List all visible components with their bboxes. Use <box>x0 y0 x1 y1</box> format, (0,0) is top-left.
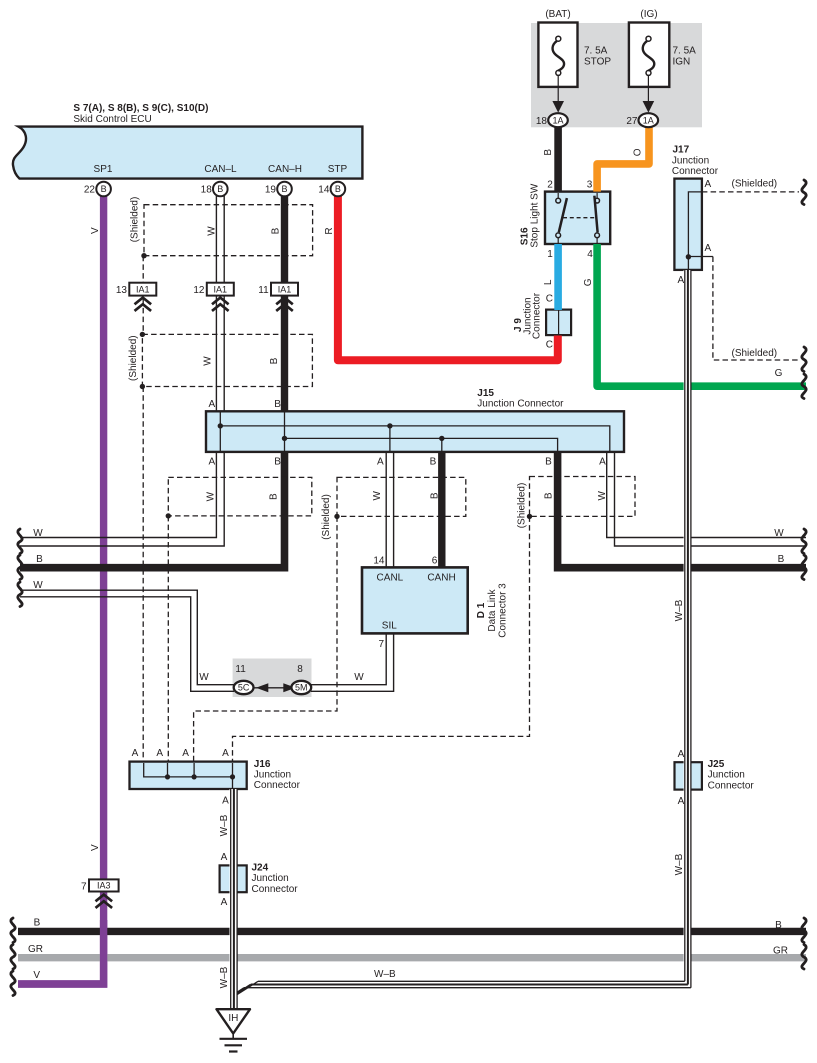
svg-text:GR: GR <box>773 946 788 957</box>
svg-text:A: A <box>221 897 228 908</box>
ECU pin circle 18 (B) <box>213 182 228 197</box>
node: shield dot box2 top-left <box>140 332 145 337</box>
svg-text:B: B <box>34 918 41 929</box>
svg-text:V: V <box>33 970 40 981</box>
svg-text:A: A <box>208 399 215 410</box>
node: shield dot box M <box>334 514 339 519</box>
svg-text:W: W <box>202 356 213 366</box>
shield drain wire (dashed) box1 to box2 through IA1 13 <box>142 256 144 335</box>
svg-text:Connector: Connector <box>672 166 719 177</box>
svg-text:W: W <box>33 528 43 539</box>
shielded dashed box M (around D1 CANL/CANH) <box>337 477 466 516</box>
svg-text:B: B <box>335 184 341 194</box>
svg-text:C: C <box>546 339 553 350</box>
connector IA3 (7) <box>89 879 119 908</box>
svg-text:3: 3 <box>587 180 593 191</box>
svg-text:B: B <box>545 457 552 468</box>
shielded dashed box R (below J15 right) <box>530 477 636 517</box>
wire O (orange) fuse IGN to S16 pin 3 <box>597 127 649 192</box>
svg-text:A: A <box>705 179 712 190</box>
svg-text:B: B <box>775 920 782 931</box>
wire W-B (white/black stripe) bottom horizontal bus <box>231 981 691 996</box>
svg-text:W: W <box>354 672 364 683</box>
svg-text:22: 22 <box>84 185 96 196</box>
wire W-B (white/black stripe) J17 through J25 to bottom bus <box>684 270 692 988</box>
ground IH (triangle and earth) <box>217 1009 251 1051</box>
svg-text:W–B: W–B <box>219 966 230 988</box>
svg-text:J15: J15 <box>477 388 494 399</box>
svg-text:27: 27 <box>626 116 638 127</box>
svg-text:D 1: D 1 <box>476 602 487 618</box>
svg-text:(IG): (IG) <box>640 9 657 20</box>
svg-text:G: G <box>583 278 594 286</box>
svg-text:B: B <box>274 457 281 468</box>
svg-text:B: B <box>429 492 440 499</box>
svg-text:5M: 5M <box>295 683 308 693</box>
wire W (double line) CAN-L pin 18 to J15 <box>215 196 217 411</box>
wire W-B (white/black stripe) J16 to J24 to ground IH <box>230 789 238 1009</box>
junction connector J15 (box) <box>206 411 624 452</box>
junction connector J16 (box) <box>130 762 247 789</box>
svg-text:A: A <box>377 457 384 468</box>
svg-text:CAN–L: CAN–L <box>204 164 237 175</box>
svg-text:1A: 1A <box>552 116 563 126</box>
svg-text:W: W <box>205 491 216 501</box>
svg-text:W: W <box>774 528 784 539</box>
svg-text:A: A <box>678 796 685 807</box>
svg-text:19: 19 <box>265 185 277 196</box>
Skid Control ECU (box with torn left edge) <box>13 127 362 179</box>
svg-text:S 7(A), S 8(B), S 9(C), S10(D): S 7(A), S 8(B), S 9(C), S10(D) <box>73 103 208 114</box>
svg-text:CAN–H: CAN–H <box>268 164 302 175</box>
svg-text:A: A <box>156 748 163 759</box>
svg-text:18: 18 <box>536 116 548 127</box>
svg-text:O: O <box>633 148 644 156</box>
svg-text:A: A <box>222 748 229 759</box>
stop light switch S16 (box) <box>545 192 610 244</box>
svg-text:14: 14 <box>318 185 330 196</box>
svg-text:1: 1 <box>547 249 553 260</box>
svg-text:7. 5A: 7. 5A <box>673 46 697 57</box>
svg-text:L: L <box>543 279 554 285</box>
svg-text:B: B <box>543 149 554 156</box>
svg-text:(Shielded): (Shielded) <box>130 197 141 243</box>
svg-text:A: A <box>678 749 685 760</box>
svg-text:11: 11 <box>258 285 269 296</box>
svg-text:SIL: SIL <box>382 620 397 631</box>
node: shield dot box R <box>527 514 532 519</box>
svg-text:B: B <box>270 227 281 234</box>
svg-text:12: 12 <box>193 285 205 296</box>
svg-text:V: V <box>90 844 101 851</box>
node: shield dot box1 bottom-left <box>141 253 146 258</box>
svg-text:R: R <box>324 227 335 234</box>
wire W (double line) right bus from J15 <box>607 452 806 538</box>
junction connector J25 (box) <box>675 762 702 789</box>
svg-text:Connector: Connector <box>254 780 301 791</box>
fuse block gray background <box>531 23 702 127</box>
svg-text:7. 5A: 7. 5A <box>584 46 608 57</box>
node: shield dot box L <box>166 513 171 518</box>
svg-text:A: A <box>221 852 228 863</box>
ECU pin circle 19 (B) <box>277 182 292 197</box>
wire W (double line) below J15 to left bus <box>20 452 216 538</box>
torn edge squiggles left buses <box>18 529 22 554</box>
junction connector J24 (box) <box>220 865 247 892</box>
svg-text:Junction: Junction <box>672 156 709 167</box>
svg-text:J16: J16 <box>254 759 271 770</box>
shield drain wire (dashed) box R to J16 pin 4 <box>233 516 530 761</box>
connector IA1 (13) <box>129 283 156 311</box>
connector IA1 (12) <box>207 283 234 311</box>
wire B (black) CAN-H below J15 to left bus <box>20 452 285 568</box>
svg-text:18: 18 <box>201 185 213 196</box>
fuse STOP element (curve and contacts) <box>553 36 565 75</box>
svg-text:B: B <box>543 492 554 499</box>
svg-text:B: B <box>269 493 280 500</box>
svg-text:B: B <box>217 184 223 194</box>
svg-text:7: 7 <box>81 882 87 893</box>
svg-text:B: B <box>101 184 107 194</box>
svg-text:B: B <box>281 184 287 194</box>
svg-text:13: 13 <box>116 285 128 296</box>
svg-text:1A: 1A <box>643 116 654 126</box>
shield dashed from J17 second pin A down and right <box>713 257 799 361</box>
svg-text:(Shielded): (Shielded) <box>128 335 139 381</box>
svg-text:Connector 3: Connector 3 <box>497 583 508 638</box>
svg-text:IH: IH <box>228 1013 238 1024</box>
J16 internal rail <box>144 763 233 777</box>
svg-text:A: A <box>599 457 606 468</box>
J15 internal rail 2 <box>285 438 558 451</box>
svg-text:C: C <box>546 294 553 305</box>
svg-text:B: B <box>430 457 437 468</box>
ECU pin circle 14 (B) <box>331 182 346 197</box>
svg-text:A: A <box>677 275 684 286</box>
inline connector ovals 5C / 5M with arrows <box>234 681 311 694</box>
shield dashed from J17 pin A to right edge <box>702 191 799 193</box>
fuse IGN element (curve and contacts) <box>643 36 655 75</box>
svg-text:B: B <box>274 399 281 410</box>
svg-text:2: 2 <box>547 180 553 191</box>
svg-text:IGN: IGN <box>673 57 691 68</box>
svg-text:W: W <box>206 226 217 236</box>
J15 internal pass-through lines <box>219 412 221 451</box>
svg-text:IA3: IA3 <box>97 881 111 891</box>
J17 internal shield wire and pins <box>688 192 713 257</box>
svg-text:6: 6 <box>432 555 438 566</box>
wire V (violet) crossing over buses, bottom left <box>18 920 104 984</box>
svg-text:IA1: IA1 <box>136 284 150 294</box>
svg-text:A: A <box>705 243 712 254</box>
wire W (double line) 5M to D1 SIL pin 7 <box>311 634 386 685</box>
svg-text:GR: GR <box>28 944 43 955</box>
svg-text:B: B <box>269 357 280 364</box>
fuse STOP output arrow into 1A <box>548 75 568 127</box>
shielded dashed box L (below J15 left) <box>168 477 311 516</box>
svg-text:A: A <box>132 748 139 759</box>
fuse 7.5A IGN (box) <box>629 23 669 87</box>
wire B (black) J15 down to D1 CANH pin 6 <box>438 452 445 567</box>
fuse 7.5A STOP (box) <box>538 23 577 87</box>
svg-text:8: 8 <box>297 664 303 675</box>
svg-text:B: B <box>36 554 43 565</box>
node: J17 junction dot <box>686 254 691 259</box>
shield drain wire (dashed) box M to J16 pin 3 <box>194 516 337 761</box>
svg-text:CANH: CANH <box>427 572 455 583</box>
svg-text:SP1: SP1 <box>94 164 113 175</box>
data link connector D1 (box) <box>362 567 468 633</box>
ECU pin circle 22 (B) <box>96 182 111 197</box>
svg-text:W: W <box>33 580 43 591</box>
svg-text:Junction: Junction <box>254 769 291 780</box>
svg-text:CANL: CANL <box>377 572 404 583</box>
S16 switch contacts and blades <box>556 193 600 243</box>
svg-text:W–B: W–B <box>374 969 396 980</box>
svg-text:Junction: Junction <box>708 770 745 781</box>
bus GR (gray) bottom <box>18 954 806 961</box>
svg-text:W: W <box>372 491 383 501</box>
torn edge squiggles right side <box>802 180 806 205</box>
svg-text:Stop Light SW: Stop Light SW <box>530 183 541 247</box>
svg-text:W–B: W–B <box>674 599 685 621</box>
svg-text:Connector: Connector <box>531 292 542 339</box>
wire V (violet) SP1 to IA3 to bottom-left <box>18 196 104 984</box>
wire G (green) S16 pin 4 to right edge <box>597 244 806 386</box>
svg-text:7: 7 <box>378 639 384 650</box>
node: shield dot box2 bottom-left <box>140 384 145 389</box>
svg-text:G: G <box>775 368 783 379</box>
wire W (double line) J15 to D1 CANL pin 14 <box>385 452 387 567</box>
connector IA1 (11) <box>271 283 298 311</box>
svg-text:5C: 5C <box>238 683 250 693</box>
svg-text:(Shielded): (Shielded) <box>321 494 332 540</box>
wire B (black) right bus from J15 <box>558 452 806 568</box>
svg-text:W–B: W–B <box>219 814 230 836</box>
svg-text:(Shielded): (Shielded) <box>517 483 528 529</box>
wire R (red) STP pin 14 to J9 <box>338 196 558 360</box>
inline connector 5C/5M gray background <box>233 659 312 698</box>
svg-text:STOP: STOP <box>584 57 611 68</box>
svg-text:A: A <box>222 796 229 807</box>
bus B (black) bottom <box>18 928 806 935</box>
svg-text:W: W <box>199 672 209 683</box>
svg-text:IA1: IA1 <box>278 284 292 294</box>
svg-text:Connector: Connector <box>252 884 299 895</box>
svg-text:Connector: Connector <box>708 780 755 791</box>
svg-text:A: A <box>182 748 189 759</box>
svg-text:IA1: IA1 <box>214 284 228 294</box>
svg-text:4: 4 <box>587 249 593 260</box>
fuse IGN output arrow into 1A <box>639 75 659 127</box>
svg-text:J24: J24 <box>252 863 269 874</box>
shield drain wire (dashed) box2 to J16 pin 1 <box>142 387 144 762</box>
J15 internal rail 1 <box>220 426 610 451</box>
svg-text:J17: J17 <box>673 144 690 155</box>
shielded dashed box 1 (around CAN-L / CAN-H upper) <box>144 205 313 256</box>
svg-text:W–B: W–B <box>674 853 685 875</box>
wire B (black) fuse STOP to S16 pin 2 <box>554 127 562 192</box>
svg-text:B: B <box>778 554 785 565</box>
svg-text:(BAT): (BAT) <box>545 9 570 20</box>
svg-text:11: 11 <box>235 664 246 675</box>
shield drain wire (dashed) box L to J16 pin 2 <box>167 516 169 762</box>
svg-text:V: V <box>90 227 101 234</box>
svg-text:W: W <box>597 491 608 501</box>
svg-text:Junction Connector: Junction Connector <box>477 399 564 410</box>
svg-text:A: A <box>208 457 215 468</box>
node: J16 junction dots <box>165 774 170 779</box>
svg-text:(Shielded): (Shielded) <box>732 348 778 359</box>
wire B (black) CAN-H from pin 19 to J15 <box>281 196 288 411</box>
node: J15 junction dots <box>218 423 223 428</box>
svg-text:(Shielded): (Shielded) <box>732 179 778 190</box>
svg-text:STP: STP <box>328 164 348 175</box>
svg-text:14: 14 <box>373 555 385 566</box>
wire L (light blue) S16 pin 1 to J9 <box>554 244 562 310</box>
svg-text:Skid Control ECU: Skid Control ECU <box>73 114 151 125</box>
wire W (double line) left bus to inline connector 5C <box>20 590 234 685</box>
svg-text:J25: J25 <box>708 759 725 770</box>
svg-text:Junction: Junction <box>252 873 289 884</box>
shielded dashed box 2 <box>142 334 312 386</box>
junction connector J17 (box) <box>674 179 702 270</box>
junction connector J9 (box) <box>546 310 571 336</box>
